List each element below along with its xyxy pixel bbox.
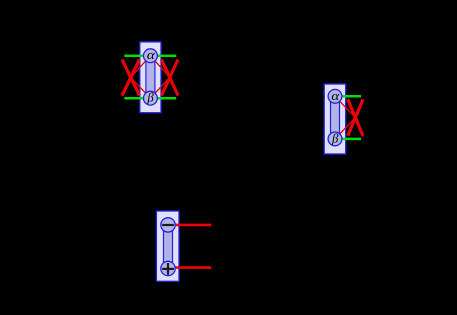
svg-text:β: β (331, 131, 339, 145)
RP2 level line bottom (green) (335, 138, 361, 141)
RP1 transition alpha to left cross center (131, 56, 151, 78)
ion pair IP box (156, 211, 179, 281)
RP2 transition alpha to cross center (335, 96, 355, 117)
RP2 level line top (green) (335, 95, 361, 98)
RP2 transition beta to cross center (335, 118, 355, 139)
svg-text:α: α (147, 49, 156, 62)
IP wire from minus (168, 224, 211, 227)
RP1 bond bar (146, 56, 155, 98)
RP2 spin alpha label (331, 90, 340, 103)
RP1 transition beta to left cross center (131, 78, 151, 99)
IP wire from plus (168, 266, 211, 269)
svg-text:β: β (146, 91, 154, 105)
RP2 bond bar (331, 96, 340, 139)
RP1 spin beta circle (144, 91, 158, 105)
RP1 transition beta to right cross center (150, 78, 169, 99)
RP1 forbidden cross right (162, 60, 179, 96)
RP2 spin beta circle (328, 132, 342, 146)
IP minus circle (161, 218, 175, 232)
RP2 spin alpha circle (328, 89, 342, 103)
IP bond bar (164, 225, 173, 269)
RP1 level line bottom (green) (124, 97, 176, 100)
RP1 spin alpha circle (144, 49, 158, 63)
RP2 forbidden cross right (348, 99, 363, 136)
RP1 spin alpha label (147, 49, 156, 62)
RP1 level line top (green) (124, 54, 176, 57)
radical pair RP1 box (140, 42, 161, 113)
svg-text:α: α (331, 90, 340, 103)
RP1 forbidden cross left (122, 60, 140, 96)
IP plus circle (161, 261, 175, 275)
radical pair RP2 box (324, 84, 346, 154)
IP minus sign (162, 224, 174, 226)
RP1 transition alpha to right cross center (150, 56, 169, 78)
IP plus sign (162, 263, 174, 275)
